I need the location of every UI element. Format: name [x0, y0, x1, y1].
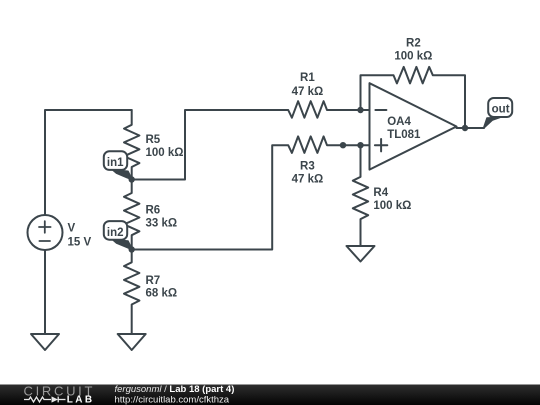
svg-text:in1: in1 [107, 157, 124, 169]
svg-text:100 kΩ: 100 kΩ [146, 147, 184, 159]
svg-text:out: out [492, 103, 510, 115]
svg-text:http://circuitlab.com/cfkthza: http://circuitlab.com/cfkthza [115, 394, 230, 405]
svg-text:R1: R1 [300, 72, 315, 84]
svg-text:100 kΩ: 100 kΩ [394, 51, 432, 63]
svg-text:TL081: TL081 [387, 129, 421, 141]
svg-text:V: V [68, 223, 76, 235]
svg-text:47 kΩ: 47 kΩ [292, 174, 324, 186]
svg-text:33 kΩ: 33 kΩ [146, 218, 178, 230]
svg-text:in2: in2 [107, 227, 124, 239]
svg-text:R2: R2 [406, 37, 421, 49]
svg-text:R3: R3 [300, 160, 315, 172]
svg-text:47 kΩ: 47 kΩ [292, 86, 324, 98]
svg-text:LAB: LAB [67, 395, 95, 405]
svg-text:15 V: 15 V [68, 236, 92, 248]
svg-text:fergusonml / Lab 18 (part 4): fergusonml / Lab 18 (part 4) [115, 384, 235, 395]
svg-text:R4: R4 [373, 187, 388, 199]
svg-text:R6: R6 [146, 204, 161, 216]
svg-text:OA4: OA4 [387, 116, 411, 128]
svg-text:R5: R5 [146, 134, 161, 146]
svg-text:68 kΩ: 68 kΩ [146, 288, 178, 300]
svg-text:R7: R7 [146, 275, 161, 287]
svg-text:100 kΩ: 100 kΩ [373, 200, 411, 212]
